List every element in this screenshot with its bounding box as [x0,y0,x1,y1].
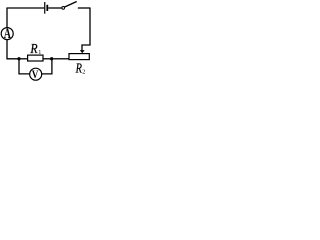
svg-text:2: 2 [82,68,85,75]
svg-text:R: R [30,41,39,56]
svg-text:R: R [75,61,82,76]
svg-text:V: V [32,68,39,81]
svg-text:1: 1 [38,49,41,56]
svg-text:A: A [4,26,11,42]
